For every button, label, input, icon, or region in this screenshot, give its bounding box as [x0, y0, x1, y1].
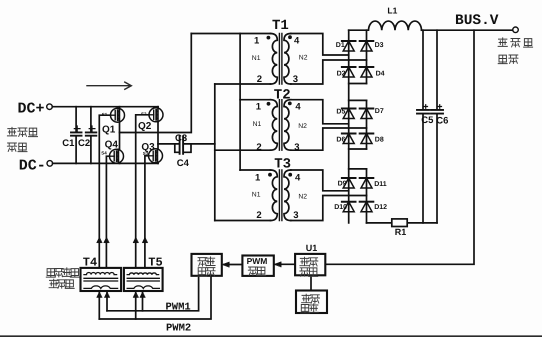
wire T3 pin1 lead — [240, 169, 270, 171]
diode D12 — [360, 202, 374, 212]
capacitor C3 / C4 parallel pair — [175, 144, 191, 152]
label 控制 (control) — [248, 267, 257, 275]
capacitor C2 — [90, 107, 92, 164]
op-amp U1 sampling compare box — [295, 254, 325, 275]
svg-text:D5: D5 — [336, 108, 345, 115]
diode D1 — [342, 41, 356, 51]
node DC+ terminal — [47, 104, 53, 110]
wire pin1 bus — [239, 34, 241, 171]
svg-text:T5: T5 — [148, 255, 162, 269]
svg-text:C6: C6 — [436, 115, 448, 126]
diode D11 — [360, 178, 374, 188]
svg-text:Q2: Q2 — [138, 121, 152, 132]
svg-text:C2: C2 — [78, 138, 90, 149]
label 电压 (voltage) — [301, 305, 310, 314]
wire bridge midpoint A to T1 pin1 bus — [120, 34, 192, 133]
wire bridge1 bottom bus — [349, 83, 367, 85]
wire rectifier left string — [348, 30, 350, 223]
transistor Q3 — [149, 149, 163, 163]
svg-text:D8: D8 — [375, 136, 384, 143]
svg-text:D12: D12 — [374, 204, 387, 211]
svg-text:L1: L1 — [387, 5, 397, 15]
svg-text:S4: S4 — [101, 150, 107, 155]
wire Q2 gate bus — [136, 115, 149, 268]
svg-text:4: 4 — [295, 172, 301, 183]
wire T5 output to PWM2 — [135, 291, 137, 319]
svg-text:C1: C1 — [62, 138, 75, 149]
svg-text:2: 2 — [256, 142, 261, 153]
T4 internals — [84, 273, 117, 275]
svg-text:N2: N2 — [299, 55, 308, 62]
diode D9 — [342, 178, 356, 188]
wire T3 pin2 lead — [215, 220, 271, 222]
svg-text:D10: D10 — [334, 204, 347, 211]
svg-text:D7: D7 — [375, 108, 384, 115]
svg-text:1: 1 — [255, 172, 261, 183]
wire T1 pin2 lead — [215, 83, 271, 85]
svg-text:1: 1 — [254, 35, 260, 46]
wire DC- rail — [53, 162, 158, 164]
svg-text:C4: C4 — [177, 158, 190, 169]
block 基准电压 reference voltage box — [296, 291, 327, 314]
drive transformer T5 box — [124, 268, 163, 291]
diode D5 — [342, 109, 356, 119]
dot T2 primary — [267, 102, 271, 106]
block 驱动电路 drive circuit box — [192, 254, 222, 276]
wire U1 to PWM control with arrow — [276, 263, 296, 265]
wire rectifier right string B1 — [366, 30, 368, 83]
node BUS.V terminal — [513, 27, 519, 33]
arrows into T4 bottom — [97, 292, 110, 298]
label 隔离驱动变压器 (isolation drive transformer) — [46, 269, 55, 278]
wire Q1 gate bus — [99, 115, 110, 268]
svg-text:2: 2 — [257, 74, 262, 85]
svg-text:T1: T1 — [272, 18, 289, 34]
dot T1 primary — [267, 36, 271, 40]
svg-text:N1: N1 — [252, 55, 261, 62]
drive transformer T4 box — [81, 268, 122, 291]
wire rectifier right string B2 — [366, 100, 368, 149]
wire T1 pin1 lead — [191, 33, 270, 35]
arrow (power flow) — [87, 82, 131, 89]
label 驱动 (drive) — [198, 258, 207, 266]
dot T2 secondary — [288, 102, 292, 106]
svg-text:U1: U1 — [306, 243, 318, 253]
arrows into T5 bottom — [133, 292, 145, 298]
wire bridge3 top bus — [349, 168, 367, 170]
svg-text:S2: S2 — [141, 111, 147, 116]
svg-text:4: 4 — [295, 102, 301, 113]
wire T2 secondary leads — [291, 100, 367, 151]
svg-text:N1: N1 — [253, 121, 262, 128]
svg-text:N2: N2 — [298, 123, 307, 130]
transistor Q1 — [111, 108, 125, 122]
label 采样 (sampling) — [300, 257, 309, 266]
wire left leg (Q1/Q4 drain-source) — [119, 107, 121, 164]
svg-text:D4: D4 — [376, 71, 385, 78]
svg-text:S3: S3 — [143, 151, 149, 156]
capacitor C1 — [75, 107, 77, 164]
wire T5 input lines arrows — [133, 237, 148, 243]
inductor L1 — [349, 21, 422, 30]
diode D4 — [360, 67, 374, 77]
svg-text:N1: N1 — [252, 192, 261, 199]
label 电路 (circuit) — [197, 268, 206, 277]
dot T3 primary — [268, 173, 272, 177]
wire output return rail — [367, 222, 438, 224]
diode D3 — [360, 41, 374, 51]
wire pin2 bus — [214, 84, 216, 221]
svg-text:Q1: Q1 — [102, 124, 116, 135]
svg-text:D11: D11 — [374, 181, 387, 188]
label 比较 (compare) — [300, 268, 309, 276]
wire T4 output to PWM1 — [106, 291, 108, 311]
wire T5 output to PWM1 — [142, 291, 144, 311]
transistor Q4 — [110, 149, 124, 163]
wire DC+ rail — [52, 106, 158, 108]
svg-text:S1: S1 — [102, 112, 108, 117]
wire bridge midpoint B to C3/C4 — [158, 143, 215, 145]
label 基准 (reference) — [302, 294, 311, 303]
wire PWM control to drive circuit with arrow — [224, 264, 242, 266]
wire T4 output to PWM2 — [98, 291, 100, 319]
wire U1 to reference box — [310, 275, 312, 290]
svg-text:D1: D1 — [336, 42, 345, 49]
transformer T3 windings — [271, 170, 291, 221]
block PWM控制 box — [242, 256, 273, 276]
transformer T2 windings — [271, 100, 291, 151]
svg-text:DC-: DC- — [19, 157, 46, 174]
diode D6 — [342, 134, 356, 144]
label 直流输出端 (DC output terminal) — [498, 38, 507, 47]
svg-text:D2: D2 — [337, 71, 346, 78]
svg-text:N2: N2 — [298, 194, 307, 201]
wire voltage sense line — [325, 30, 474, 264]
wire Q3 gate bus — [145, 156, 149, 268]
svg-text:BUS.V: BUS.V — [455, 13, 499, 29]
capacitor C5 — [422, 30, 424, 223]
wire T3 secondary leads — [291, 170, 367, 221]
label 直流输入端 (DC input terminal) — [7, 127, 16, 135]
svg-text:3: 3 — [293, 74, 298, 85]
transformer T1 windings — [271, 34, 291, 85]
svg-text:PWM1: PWM1 — [166, 302, 191, 314]
svg-text:3: 3 — [294, 142, 299, 153]
wire PWM1 line — [107, 276, 199, 311]
resistor R1 — [392, 219, 407, 227]
svg-text:3: 3 — [293, 210, 298, 221]
wire Q4 gate bus — [106, 156, 109, 268]
dot T3 secondary — [288, 173, 292, 177]
svg-text:D6: D6 — [336, 136, 345, 143]
svg-text:C3: C3 — [175, 133, 187, 144]
wire T2 pin2 lead — [215, 149, 271, 151]
svg-text:T4: T4 — [83, 255, 97, 269]
diode D2 — [342, 67, 356, 77]
node DC- terminal — [47, 161, 53, 167]
svg-text:R1: R1 — [395, 227, 407, 237]
scan border bottom edge — [0, 335, 542, 337]
svg-text:DC+: DC+ — [18, 101, 45, 118]
wire bridge2 top bus — [349, 99, 367, 101]
svg-text:Q4: Q4 — [105, 139, 119, 150]
diode D10 — [342, 202, 356, 212]
svg-text:T3: T3 — [274, 157, 291, 173]
wire rectifier right string B3 — [366, 169, 368, 223]
wire PWM2 line — [99, 276, 211, 319]
svg-text:T2: T2 — [274, 87, 291, 103]
wire T2 pin1 lead — [240, 99, 270, 101]
svg-text:PWM2: PWM2 — [166, 322, 191, 334]
svg-text:D3: D3 — [375, 42, 384, 49]
diode D8 — [360, 134, 374, 144]
svg-text:PWM: PWM — [247, 256, 268, 266]
wire T4 input lines arrows — [97, 237, 110, 243]
svg-text:D9: D9 — [338, 180, 347, 187]
wire T1 secondary leads — [291, 34, 367, 85]
diode D7 — [360, 109, 374, 119]
wire right leg (Q2/Q3 drain-source) — [157, 107, 159, 164]
capacitor C6 — [436, 30, 438, 223]
transistor Q2 — [149, 108, 163, 122]
svg-text:1: 1 — [256, 102, 262, 113]
wire bridge2 bottom bus — [349, 148, 367, 150]
T5 internals — [127, 273, 158, 275]
dot T1 secondary — [288, 35, 292, 39]
svg-text:4: 4 — [294, 35, 300, 46]
svg-text:2: 2 — [256, 210, 261, 221]
wire BUS.V rail — [422, 29, 513, 31]
svg-text:C5: C5 — [421, 115, 434, 126]
